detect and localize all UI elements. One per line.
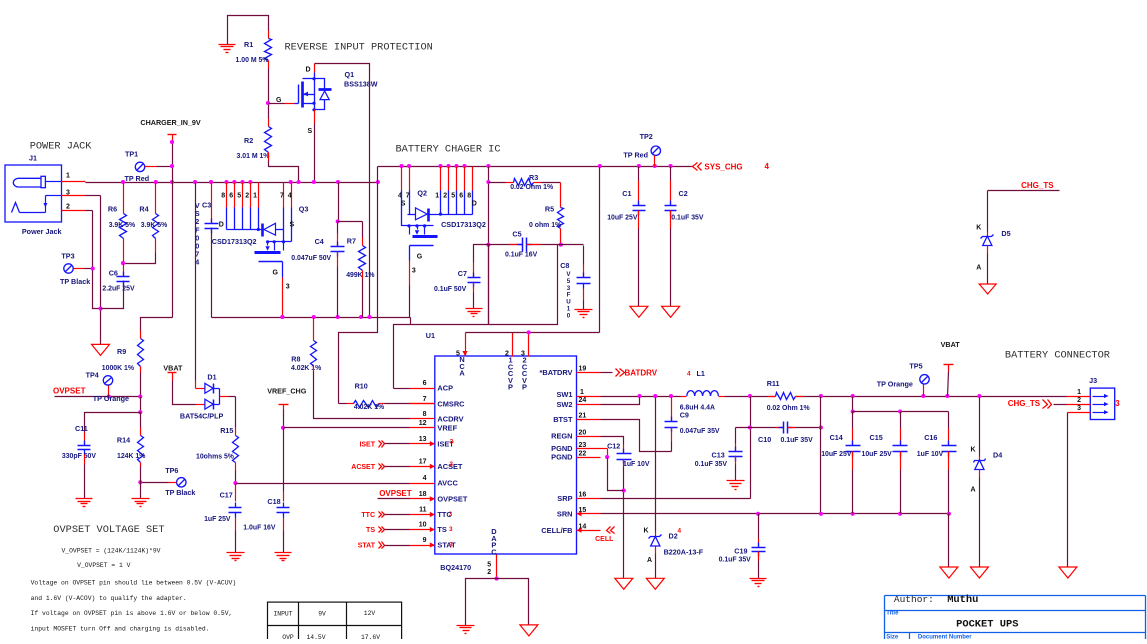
svg-text:Q3: Q3 <box>299 204 309 213</box>
svg-text:D2: D2 <box>669 532 678 541</box>
svg-text:D4: D4 <box>993 451 1002 460</box>
svg-text:0.1uF 16V: 0.1uF 16V <box>505 252 538 259</box>
svg-text:Power Jack: Power Jack <box>22 227 62 236</box>
svg-text:BAT54C/PLP: BAT54C/PLP <box>180 412 224 421</box>
svg-text:2: 2 <box>1077 397 1081 404</box>
svg-text:K: K <box>644 528 649 535</box>
svg-text:1uF 10V: 1uF 10V <box>917 451 944 458</box>
svg-text:2: 2 <box>66 204 70 211</box>
svg-text:SW2: SW2 <box>556 400 572 409</box>
svg-text:TP1: TP1 <box>125 150 138 159</box>
svg-text:6: 6 <box>459 193 463 200</box>
svg-text:C5: C5 <box>512 229 521 238</box>
svg-text:R2: R2 <box>244 136 253 145</box>
svg-text:G: G <box>417 254 423 261</box>
svg-text:VREF_CHG: VREF_CHG <box>267 387 307 396</box>
svg-text:2: 2 <box>487 569 491 576</box>
svg-text:2: 2 <box>245 193 249 200</box>
svg-text:V_OVPSET = 1 V: V_OVPSET = 1 V <box>77 562 130 569</box>
svg-text:CMSRC: CMSRC <box>437 400 465 409</box>
svg-text:1000K 1%: 1000K 1% <box>102 365 134 372</box>
svg-text:SRN: SRN <box>557 509 573 518</box>
svg-text:2.2uF 25V: 2.2uF 25V <box>102 286 135 293</box>
svg-text:L1: L1 <box>697 369 705 378</box>
svg-text:R4: R4 <box>139 205 148 214</box>
svg-text:SRP: SRP <box>557 494 572 503</box>
svg-text:4: 4 <box>678 528 682 535</box>
svg-text:CHG_TS: CHG_TS <box>1008 399 1041 408</box>
svg-text:R7: R7 <box>347 237 356 246</box>
svg-text:D5: D5 <box>1001 229 1010 238</box>
svg-text:SW1: SW1 <box>556 390 572 399</box>
svg-text:R5: R5 <box>545 205 554 214</box>
svg-text:6: 6 <box>229 193 233 200</box>
svg-text:1.00 M 5%: 1.00 M 5% <box>236 57 269 64</box>
svg-text:4: 4 <box>195 258 199 267</box>
svg-text:PGND: PGND <box>551 453 573 462</box>
svg-text:TP Black: TP Black <box>165 488 195 497</box>
svg-text:124K 1%: 124K 1% <box>117 453 145 460</box>
svg-text:C13: C13 <box>712 451 725 460</box>
svg-text:A: A <box>976 265 981 272</box>
svg-text:9V: 9V <box>318 611 326 618</box>
svg-text:A: A <box>647 557 652 564</box>
svg-text:R1: R1 <box>244 40 253 49</box>
svg-text:17.6V: 17.6V <box>361 634 380 639</box>
svg-text:D: D <box>306 67 311 74</box>
svg-text:VBAT: VBAT <box>941 340 961 349</box>
svg-text:G: G <box>276 97 282 104</box>
svg-text:D: D <box>219 222 224 229</box>
svg-text:12: 12 <box>419 420 427 427</box>
svg-text:VBAT: VBAT <box>163 364 183 373</box>
svg-text:C19: C19 <box>734 546 747 555</box>
svg-text:24: 24 <box>579 397 587 404</box>
svg-text:BATTERY CONNECTOR: BATTERY CONNECTOR <box>1005 350 1110 362</box>
svg-text:TP Black: TP Black <box>60 277 90 286</box>
svg-text:S: S <box>308 128 313 135</box>
svg-text:C12: C12 <box>607 442 620 451</box>
svg-text:16: 16 <box>579 492 587 499</box>
svg-text:10uF 25V: 10uF 25V <box>862 451 893 458</box>
svg-text:BATDRV: BATDRV <box>625 369 658 378</box>
svg-text:AVCC: AVCC <box>437 479 458 488</box>
svg-text:STAT: STAT <box>358 543 376 550</box>
svg-text:20: 20 <box>579 429 587 436</box>
svg-text:OVPSET: OVPSET <box>437 495 467 504</box>
svg-text:CHARGER_IN_9V: CHARGER_IN_9V <box>140 118 201 127</box>
svg-text:10ohms 5%: 10ohms 5% <box>196 454 234 461</box>
svg-text:SYS_CHG: SYS_CHG <box>704 163 742 172</box>
svg-text:VREF: VREF <box>437 423 457 432</box>
svg-text:19: 19 <box>579 366 587 373</box>
svg-text:R3: R3 <box>529 173 538 182</box>
svg-text:R14: R14 <box>117 436 130 445</box>
svg-text:TP Orange: TP Orange <box>93 394 129 403</box>
svg-text:CSD17313Q2: CSD17313Q2 <box>441 220 486 229</box>
svg-text:TP3: TP3 <box>61 252 74 261</box>
svg-text:1uF 10V: 1uF 10V <box>623 461 650 468</box>
svg-text:*BATDRV: *BATDRV <box>540 368 573 377</box>
svg-text:R8: R8 <box>291 355 300 364</box>
svg-text:U1: U1 <box>426 331 435 340</box>
svg-text:3: 3 <box>286 284 290 291</box>
svg-text:C10: C10 <box>758 435 771 444</box>
svg-text:R10: R10 <box>355 382 368 391</box>
svg-text:C4: C4 <box>315 237 324 246</box>
svg-text:TP6: TP6 <box>165 466 178 475</box>
svg-text:Q2: Q2 <box>417 188 427 197</box>
svg-text:R6: R6 <box>108 205 117 214</box>
svg-text:G: G <box>273 270 279 277</box>
svg-text:5: 5 <box>487 562 491 569</box>
svg-text:C8: C8 <box>560 261 569 270</box>
svg-text:10: 10 <box>419 522 427 529</box>
svg-text:TP Red: TP Red <box>623 151 648 160</box>
svg-text:499K 1%: 499K 1% <box>346 272 374 279</box>
svg-text:BQ24170: BQ24170 <box>440 563 471 572</box>
svg-text:TP Red: TP Red <box>125 174 150 183</box>
svg-text:6: 6 <box>423 380 427 387</box>
svg-text:REVERSE INPUT PROTECTION: REVERSE INPUT PROTECTION <box>285 42 433 54</box>
svg-text:K: K <box>976 225 981 232</box>
svg-text:C3: C3 <box>202 200 211 209</box>
svg-text:3: 3 <box>1077 405 1081 412</box>
svg-text:10uF 25V: 10uF 25V <box>607 215 638 222</box>
svg-text:3: 3 <box>412 267 416 274</box>
svg-text:D: D <box>472 201 477 208</box>
svg-text:4: 4 <box>687 371 691 378</box>
svg-text:R9: R9 <box>117 347 126 356</box>
svg-text:R11: R11 <box>767 379 780 388</box>
svg-text:10uF 25V: 10uF 25V <box>821 451 852 458</box>
svg-text:If voltage on OVPSET pin is ab: If voltage on OVPSET pin is above 1.6V o… <box>31 610 233 617</box>
svg-text:1.0uF 16V: 1.0uF 16V <box>243 524 276 531</box>
svg-text:17: 17 <box>419 459 427 466</box>
svg-text:CELL: CELL <box>595 536 614 543</box>
svg-text:S: S <box>401 200 406 207</box>
svg-text:4: 4 <box>288 193 292 200</box>
svg-text:0.1uF 35V: 0.1uF 35V <box>695 461 728 468</box>
svg-text:OVPSET VOLTAGE SET: OVPSET VOLTAGE SET <box>53 524 164 536</box>
svg-text:7: 7 <box>280 193 284 200</box>
svg-text:C9: C9 <box>680 411 689 420</box>
svg-text:1: 1 <box>435 193 439 200</box>
svg-text:OVP: OVP <box>282 634 294 639</box>
svg-text:TP Orange: TP Orange <box>877 379 913 388</box>
svg-text:0.047uF 50V: 0.047uF 50V <box>291 255 331 262</box>
svg-text:OVPSET: OVPSET <box>379 489 412 498</box>
svg-text:7: 7 <box>423 396 427 403</box>
svg-text:S: S <box>290 221 295 228</box>
svg-text:ISET: ISET <box>359 441 375 448</box>
svg-text:3.9K 5%: 3.9K 5% <box>109 222 135 229</box>
svg-text:C7: C7 <box>458 269 467 278</box>
svg-text:1: 1 <box>1077 389 1081 396</box>
svg-text:8: 8 <box>221 193 225 200</box>
svg-text:TP5: TP5 <box>909 362 922 371</box>
svg-text:Document Number: Document Number <box>918 634 972 639</box>
svg-text:3.01 M 1%: 3.01 M 1% <box>237 153 270 160</box>
svg-text:CELL/FB: CELL/FB <box>541 526 572 535</box>
svg-text:Muthu: Muthu <box>947 594 978 606</box>
svg-text:C2: C2 <box>679 189 688 198</box>
svg-text:BSS138W: BSS138W <box>344 80 378 89</box>
svg-text:13: 13 <box>419 436 427 443</box>
svg-text:REGN: REGN <box>551 432 572 441</box>
svg-text:B220A-13-F: B220A-13-F <box>664 548 704 557</box>
svg-text:P: P <box>508 383 513 392</box>
svg-text:3: 3 <box>450 439 454 446</box>
svg-text:and 1.6V (V-ACOV) to qualify t: and 1.6V (V-ACOV) to qualify the adapter… <box>31 595 187 602</box>
svg-text:input MOSFET turn Off and char: input MOSFET turn Off and charging is di… <box>31 625 210 632</box>
svg-text:4.02K 1%: 4.02K 1% <box>354 404 384 411</box>
svg-text:11: 11 <box>419 507 427 514</box>
svg-text:Author:: Author: <box>894 594 934 605</box>
svg-text:C1: C1 <box>622 189 631 198</box>
svg-text:3: 3 <box>1115 399 1120 408</box>
svg-text:3.9K 5%: 3.9K 5% <box>141 222 167 229</box>
svg-text:0 ohm 1%: 0 ohm 1% <box>529 222 561 229</box>
svg-text:TP4: TP4 <box>86 371 99 380</box>
svg-text:TS: TS <box>366 527 375 534</box>
svg-text:Size: Size <box>886 634 899 639</box>
svg-text:0.02 Ohm 1%: 0.02 Ohm 1% <box>510 184 553 191</box>
svg-text:2: 2 <box>443 193 447 200</box>
svg-text:C6: C6 <box>109 269 118 278</box>
svg-text:5: 5 <box>451 193 455 200</box>
svg-text:4: 4 <box>765 162 770 171</box>
svg-text:POWER JACK: POWER JACK <box>30 141 93 153</box>
svg-text:C18: C18 <box>267 497 280 506</box>
svg-text:R15: R15 <box>220 426 233 435</box>
svg-text:Title: Title <box>886 611 899 617</box>
svg-text:V_OVPSET = (124K/1124K)*9V: V_OVPSET = (124K/1124K)*9V <box>62 547 161 554</box>
svg-text:3: 3 <box>449 511 453 518</box>
svg-text:1: 1 <box>66 173 70 180</box>
svg-text:ACP: ACP <box>437 384 453 393</box>
svg-text:9: 9 <box>423 537 427 544</box>
svg-text:4: 4 <box>423 475 427 482</box>
svg-text:A: A <box>971 487 976 494</box>
svg-text:J1: J1 <box>29 154 37 163</box>
svg-text:14.5V: 14.5V <box>306 634 325 639</box>
svg-text:1uF 25V: 1uF 25V <box>204 516 231 523</box>
svg-text:18: 18 <box>419 491 427 498</box>
svg-text:C17: C17 <box>220 491 233 500</box>
svg-text:A: A <box>459 369 465 378</box>
svg-text:330pF 50V: 330pF 50V <box>62 453 96 460</box>
svg-text:1: 1 <box>580 389 584 396</box>
svg-text:0.1uF 35V: 0.1uF 35V <box>671 215 704 222</box>
svg-text:TTC: TTC <box>361 512 375 519</box>
svg-text:STAT: STAT <box>437 541 456 550</box>
svg-text:POCKET UPS: POCKET UPS <box>956 618 1018 630</box>
svg-text:0.1uF 50V: 0.1uF 50V <box>434 286 467 293</box>
svg-text:Q1: Q1 <box>345 70 355 79</box>
svg-text:C15: C15 <box>870 433 883 442</box>
svg-text:12V: 12V <box>364 610 376 617</box>
svg-text:0.1uF 35V: 0.1uF 35V <box>781 437 814 444</box>
svg-text:ACDRV: ACDRV <box>437 414 463 423</box>
svg-text:CHG_TS: CHG_TS <box>1021 181 1054 190</box>
svg-text:P: P <box>522 383 527 392</box>
svg-text:J3: J3 <box>1089 376 1097 385</box>
svg-text:3: 3 <box>449 526 453 533</box>
svg-text:Voltage on OVPSET pin should l: Voltage on OVPSET pin should lie between… <box>31 579 237 586</box>
svg-text:21: 21 <box>579 413 587 420</box>
svg-text:D1: D1 <box>207 373 216 382</box>
svg-text:23: 23 <box>579 442 587 449</box>
svg-text:3: 3 <box>449 461 453 468</box>
svg-text:4.02K 1%: 4.02K 1% <box>291 365 321 372</box>
svg-text:3: 3 <box>449 542 453 549</box>
svg-text:TP2: TP2 <box>640 132 653 141</box>
svg-text:0.047uF 35V: 0.047uF 35V <box>680 428 720 435</box>
svg-text:1: 1 <box>253 193 257 200</box>
svg-text:C11: C11 <box>75 424 88 433</box>
svg-text:ACSET: ACSET <box>351 464 375 471</box>
svg-text:5: 5 <box>237 193 241 200</box>
svg-text:C16: C16 <box>924 433 937 442</box>
svg-text:0: 0 <box>567 312 571 319</box>
svg-text:0.02 Ohm 1%: 0.02 Ohm 1% <box>767 405 810 412</box>
svg-text:CSD17313Q2: CSD17313Q2 <box>212 237 257 246</box>
svg-text:8: 8 <box>423 411 427 418</box>
svg-text:C14: C14 <box>830 433 843 442</box>
svg-text:K: K <box>971 447 976 454</box>
svg-text:TS: TS <box>437 525 447 534</box>
svg-text:OVPSET: OVPSET <box>53 386 86 395</box>
svg-text:BTST: BTST <box>553 415 573 424</box>
svg-text:22: 22 <box>579 450 587 457</box>
svg-text:8: 8 <box>467 193 471 200</box>
svg-text:0.1uF 35V: 0.1uF 35V <box>719 556 752 563</box>
svg-text:BATTERY CHAGER IC: BATTERY CHAGER IC <box>396 144 501 156</box>
svg-text:INPUT: INPUT <box>273 611 292 618</box>
